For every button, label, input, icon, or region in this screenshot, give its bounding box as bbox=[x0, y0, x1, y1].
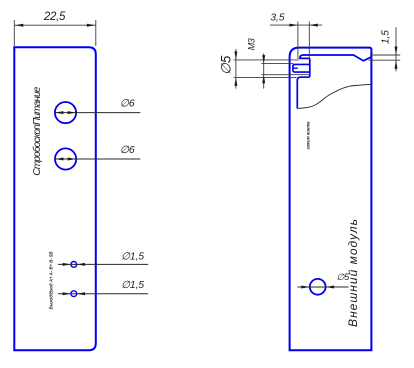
svg-text:1,5: 1,5 bbox=[380, 30, 391, 44]
svg-text:СтробоскопПитание: СтробоскопПитание bbox=[31, 86, 43, 175]
svg-text:22,5: 22,5 bbox=[43, 11, 66, 23]
svg-text:∅6: ∅6 bbox=[120, 99, 135, 110]
svg-text:3,5: 3,5 bbox=[270, 12, 285, 23]
svg-text:∅1,5: ∅1,5 bbox=[121, 252, 144, 263]
svg-text:зажим винта: зажим винта bbox=[305, 121, 310, 150]
svg-text:М3: М3 bbox=[247, 38, 257, 50]
svg-text:∅1,5: ∅1,5 bbox=[121, 280, 144, 291]
svg-text:∅6: ∅6 bbox=[120, 145, 135, 156]
svg-text:Внешний модуль: Внешний модуль bbox=[346, 218, 360, 327]
svg-text:Выход/Вход А+ А- В+ В- 5В: Выход/Вход А+ А- В+ В- 5В bbox=[49, 252, 54, 310]
svg-text:∅5: ∅5 bbox=[218, 55, 233, 75]
